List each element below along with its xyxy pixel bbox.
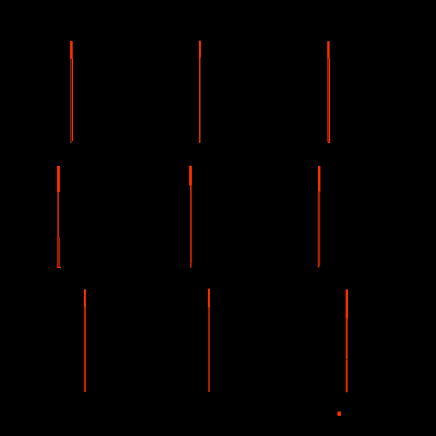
wire W4 (row 2, col 1: highlighted vertical net with terminal tick) bbox=[57, 166, 61, 268]
wire W1 (row 1, col 1: highlighted vertical net) bbox=[70, 41, 73, 143]
junction dot (net junction near bottom-right) bbox=[337, 412, 341, 416]
wire W2 (row 1, col 2: highlighted vertical net) bbox=[199, 41, 201, 143]
wire W5 (row 2, col 2: highlighted vertical net) bbox=[189, 166, 192, 268]
wire W3 (row 1, col 3: highlighted vertical net) bbox=[327, 41, 330, 143]
wire W8 (row 3, col 2: highlighted vertical net) bbox=[208, 289, 210, 392]
wire W7 (row 3, col 1: highlighted vertical net) bbox=[84, 289, 86, 392]
wire W9 (row 3, col 3: highlighted vertical net) bbox=[346, 289, 348, 392]
wire W6 (row 2, col 3: highlighted vertical net) bbox=[318, 166, 321, 267]
